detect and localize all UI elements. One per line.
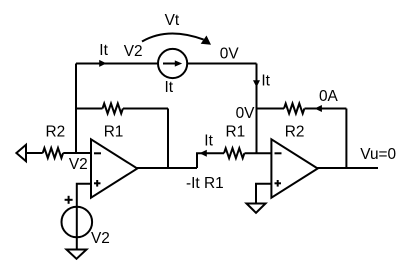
wire U2 output Vu: [317, 167, 378, 169]
svg-text:0V: 0V: [236, 105, 256, 122]
svg-text:R1: R1: [104, 124, 124, 141]
wire R1 middle to U2 minus input: [245, 152, 272, 154]
resistor R2 right: [284, 104, 304, 114]
svg-text:V2: V2: [69, 156, 88, 173]
svg-text:It: It: [204, 132, 213, 149]
wire right feedback vertical: [345, 109, 347, 169]
curved arrow Vt over current source: [142, 33, 211, 44]
input port (left arrow flag): [16, 145, 26, 161]
svg-text:It: It: [165, 79, 174, 96]
wire U2 plus input to ground: [256, 184, 271, 204]
svg-text:-It R1: -It R1: [186, 175, 224, 192]
wire top horizontal net It: [76, 63, 257, 65]
ground (under V2 source): [67, 250, 87, 259]
wire input port to R2: [26, 152, 43, 154]
wire feedback right leg down to U1 output: [167, 109, 169, 169]
wire feedback row right: [123, 108, 168, 110]
op-amp U2: [271, 139, 317, 197]
svg-text:V2: V2: [124, 43, 143, 60]
ground (U2 plus input): [247, 204, 266, 213]
svg-text:0V: 0V: [220, 45, 240, 62]
arrow It on top-left wire: [99, 60, 106, 67]
svg-text:Vt: Vt: [165, 12, 180, 29]
resistor R2 input left: [43, 148, 63, 158]
svg-text:It: It: [261, 73, 270, 90]
svg-text:It: It: [99, 42, 108, 59]
svg-text:0A: 0A: [319, 88, 339, 105]
voltage source V2 (circle, wire passes through): [62, 207, 93, 238]
plus sign of source V2: [65, 196, 73, 204]
svg-text:R1: R1: [226, 124, 246, 141]
wire left vertical (minus net of U1): [75, 64, 77, 154]
wire R2 row right to feedback corner: [305, 108, 347, 110]
op-amp U1: [91, 139, 137, 197]
current source Vt (circle with arrow): [158, 49, 187, 78]
wire R2 row left stub: [257, 108, 285, 110]
wire R2 to U1 minus input: [63, 152, 91, 154]
wire U1 output: [137, 167, 197, 169]
svg-text:R2: R2: [285, 124, 305, 141]
arrow It pointing down on vertical: [253, 80, 260, 87]
resistor R1 middle: [224, 148, 244, 158]
svg-text:R2: R2: [46, 123, 66, 140]
svg-text:V2: V2: [91, 230, 110, 247]
arrow It pointing left on middle row: [200, 150, 207, 157]
wire jog up to middle row: [197, 153, 224, 168]
wire feedback row left: [76, 108, 103, 110]
wire U1 plus input to V2 source and ground: [77, 184, 91, 250]
arrow 0A pointing left on R2 row: [315, 105, 322, 112]
wire vertical It drop at node 0V: [256, 64, 258, 154]
resistor R1 feedback of U1: [103, 104, 123, 114]
svg-text:Vu=0: Vu=0: [360, 146, 396, 163]
